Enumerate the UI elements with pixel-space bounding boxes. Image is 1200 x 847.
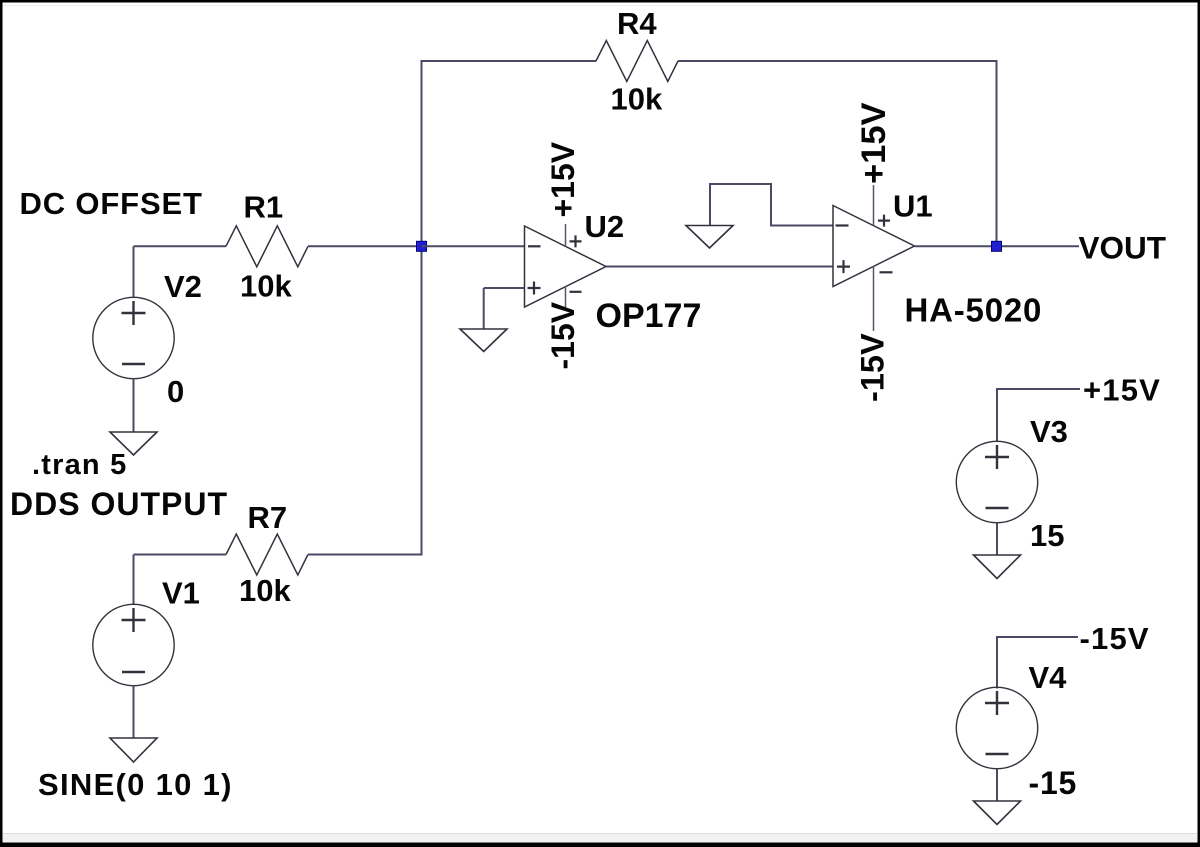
wire: V3 top horizontal to +15V net [997, 388, 1080, 390]
wire: right vertical from R4 to output junction [996, 61, 998, 246]
wire: V4 top stub [996, 636, 998, 689]
wire: top feedback right segment [678, 60, 998, 62]
svg-text:SINE(0 10 1): SINE(0 10 1) [38, 767, 233, 802]
svg-text:10k: 10k [240, 269, 292, 304]
svg-text:V1: V1 [162, 576, 200, 611]
window chrome: bottom scrollbar strip [0, 833, 1200, 834]
ground (V1) [110, 738, 157, 762]
svg-text:U2: U2 [585, 209, 625, 244]
wire: left vertical bus x=421 [421, 61, 423, 555]
wire: top feedback left segment [421, 60, 597, 62]
svg-text:10k: 10k [239, 573, 291, 608]
svg-text:OP177: OP177 [596, 297, 702, 335]
ground (U1 in-) [686, 226, 733, 249]
resistor R4 [596, 41, 678, 82]
window chrome: faint top line [2, 5, 1197, 6]
resistor R1 [226, 226, 308, 267]
wire: U2 output to U1 non-inverting input [606, 266, 834, 268]
op-amp U1 [833, 206, 915, 287]
wire: U2 in+ down to ground [483, 288, 485, 329]
wire: junction A to U2 inverting input [422, 245, 526, 247]
voltage source V2 [93, 297, 174, 378]
svg-text:DDS OUTPUT: DDS OUTPUT [10, 486, 228, 522]
svg-text:V2: V2 [164, 269, 202, 304]
svg-text:-15V: -15V [855, 333, 891, 402]
svg-text:VOUT: VOUT [1079, 230, 1167, 266]
resistor R7 [226, 534, 308, 575]
svg-text:-15V: -15V [545, 301, 581, 369]
svg-text:-15: -15 [1029, 765, 1078, 801]
svg-text:-15V: -15V [1080, 621, 1150, 656]
wire: U1 output to VOUT [915, 245, 1080, 247]
ground (V2) [110, 432, 157, 455]
U2 power pin top [565, 224, 567, 247]
wire: R7 to left vertical bus [308, 554, 423, 556]
ground (V4) [974, 801, 1021, 825]
wire: R1 to junction A [308, 245, 422, 247]
svg-text:15: 15 [1030, 518, 1064, 553]
U2 pin marks [528, 245, 541, 247]
window chrome: black frame [0, 0, 1200, 3]
wire: V2 bottom stub [133, 379, 135, 432]
svg-text:+15V: +15V [855, 102, 893, 184]
svg-text:+15V: +15V [545, 141, 581, 217]
svg-text:0: 0 [167, 374, 184, 409]
voltage source V3 [956, 441, 1037, 522]
wire: V4 top horizontal to -15V net [997, 636, 1078, 638]
wire: V2 top stub [133, 246, 135, 297]
wire: V4 bottom stub [996, 769, 998, 801]
svg-text:DC OFFSET: DC OFFSET [20, 186, 203, 221]
svg-text:.tran 5: .tran 5 [32, 449, 127, 481]
svg-text:V4: V4 [1029, 660, 1068, 695]
U1 power pin top [873, 185, 875, 226]
U2 power pin bottom [565, 286, 567, 308]
svg-text:R1: R1 [244, 190, 284, 225]
wire: V1 top stub [133, 555, 135, 605]
U1 power pin bottom [873, 266, 875, 331]
svg-text:HA-5020: HA-5020 [905, 292, 1043, 329]
wire: V1 bottom stub [133, 686, 135, 738]
op-amp U2 [525, 226, 607, 307]
wire: U2 non-inverting input stub [484, 287, 525, 289]
U1 pin marks [836, 224, 849, 226]
voltage source V1 [93, 604, 174, 685]
junction node VOUT (blue square) [992, 241, 1002, 251]
voltage source V4 [956, 687, 1037, 768]
svg-text:R7: R7 [248, 500, 288, 535]
svg-text:U1: U1 [893, 189, 933, 224]
wire: V3 bottom stub [996, 523, 998, 555]
ground (V3) [974, 555, 1021, 579]
ground (U2 in+) [460, 329, 507, 352]
wire: V1 to R7 left lead [134, 554, 227, 556]
wire: V2 to R1 left lead [134, 245, 227, 247]
svg-text:V3: V3 [1030, 414, 1068, 449]
junction node A (blue square) [417, 241, 427, 251]
svg-text:R4: R4 [617, 6, 657, 41]
wire: V3 top stub [996, 388, 998, 442]
wire: floating ground net to U1 inverting input [710, 184, 834, 226]
svg-text:10k: 10k [611, 82, 663, 117]
svg-text:+15V: +15V [1083, 373, 1161, 408]
